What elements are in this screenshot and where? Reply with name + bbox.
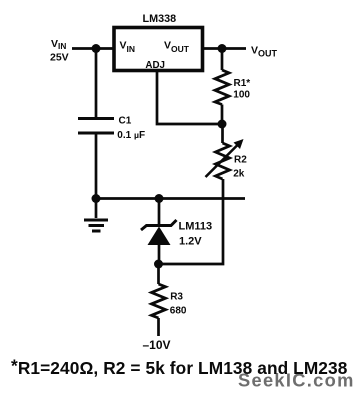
svg-text:LM338: LM338 (143, 13, 177, 25)
ground (84, 199, 108, 232)
svg-text:*R1=240Ω, R2 = 5k for LM138 an: *R1=240Ω, R2 = 5k for LM138 and LM238 (11, 355, 348, 378)
node ground junction (92, 194, 101, 203)
svg-text:1.2V: 1.2V (179, 235, 202, 247)
svg-text:C1: C1 (119, 115, 132, 126)
svg-text:25V: 25V (50, 52, 69, 64)
wire input VIN to U1 (72, 47, 114, 50)
node LM113 cathode junction (155, 194, 164, 203)
svg-text:–10V: –10V (143, 338, 171, 352)
node anode junction (154, 260, 163, 269)
svg-text:R2: R2 (234, 155, 247, 166)
node output junction (218, 44, 227, 53)
potentiometer R2 (206, 139, 248, 180)
resistor R3 (152, 264, 187, 336)
svg-text:R3: R3 (170, 292, 183, 303)
svg-text:ADJ: ADJ (145, 60, 165, 71)
node ADJ junction (218, 120, 227, 129)
capacitor C1 (78, 115, 145, 141)
node input junction (92, 44, 101, 53)
wire R2 top to ADJ node (221, 124, 224, 143)
wire ground bus (96, 197, 245, 200)
svg-text:2k: 2k (233, 169, 245, 180)
wire input node down to C1 (95, 49, 98, 120)
IC U1 LM338 voltage regulator (114, 13, 203, 71)
zener diode D1 LM113 (141, 199, 212, 265)
svg-text:LM113: LM113 (179, 221, 213, 233)
node VIN label (50, 38, 69, 64)
wire anode node to R2 bottom (159, 179, 224, 264)
svg-text:0.1 µF: 0.1 µF (117, 130, 145, 141)
svg-text:R1*: R1* (234, 78, 251, 89)
wire ADJ pin to ADJ node (157, 72, 222, 124)
resistor R1 (215, 49, 250, 125)
wire U1 VOUT to output (203, 47, 247, 50)
svg-text:680: 680 (170, 306, 187, 317)
wire C1 down to ground node (95, 133, 98, 199)
svg-text:100: 100 (233, 90, 250, 101)
